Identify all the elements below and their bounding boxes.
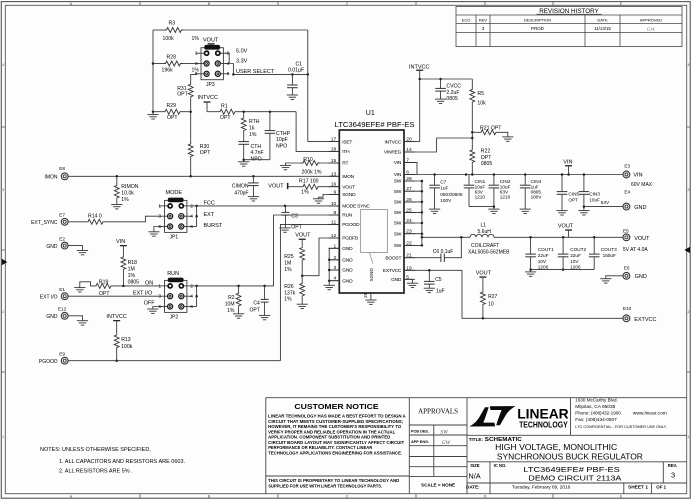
svg-text:200k 1%: 200k 1%: [302, 169, 322, 175]
resistor R26: [301, 276, 303, 282]
pin 19 EXTVCC: [404, 269, 415, 271]
node VOUT select rail: [152, 30, 154, 112]
svg-text:R5: R5: [477, 91, 484, 97]
svg-text:CIN3: CIN3: [589, 192, 600, 197]
wire MODE select chain: [196, 206, 198, 227]
capacitor C7: [434, 175, 436, 186]
svg-text:10V: 10V: [538, 259, 547, 264]
svg-text:0805: 0805: [481, 161, 493, 167]
svg-text:C7: C7: [440, 179, 446, 184]
svg-text:EXT: EXT: [204, 212, 215, 218]
wire EXT_SYNC to JP1: [105, 216, 159, 222]
svg-text:4: 4: [333, 276, 336, 282]
capacitor CIN1: [468, 175, 470, 186]
svg-text:R27: R27: [488, 294, 497, 300]
svg-text:1%: 1%: [121, 197, 129, 203]
svg-text:DESCRIPTION: DESCRIPTION: [524, 17, 551, 22]
svg-text:10.0k: 10.0k: [121, 191, 134, 197]
wire INTVCC net: [420, 79, 473, 142]
pin 24 SW: [404, 222, 415, 224]
ground JP1 pin5: [154, 227, 159, 232]
svg-text:1%: 1%: [249, 132, 257, 138]
svg-text:1%: 1%: [284, 267, 292, 273]
svg-text:1M: 1M: [284, 261, 291, 267]
terminal E9: [61, 357, 68, 364]
terminal E2: [61, 242, 68, 249]
svg-text:TECHNOLOGY: TECHNOLOGY: [519, 419, 568, 429]
svg-text:TITLE:: TITLE:: [469, 437, 484, 442]
svg-text:1uF: 1uF: [436, 289, 445, 295]
pin 17 ISET: [329, 141, 340, 143]
pin 28 SW: [404, 180, 415, 182]
svg-text:13: 13: [331, 171, 337, 177]
svg-text:OPT: OPT: [177, 92, 188, 98]
pin 22 SW: [404, 244, 415, 246]
svg-text:1630 McCarthy Blvd.: 1630 McCarthy Blvd.: [575, 398, 618, 403]
ground SGND pin9: [319, 195, 340, 199]
svg-text:OPT: OPT: [167, 115, 178, 121]
svg-text:10: 10: [488, 301, 494, 307]
svg-text:INTVCC: INTVCC: [106, 314, 127, 320]
capacitor C6 boost: [404, 257, 441, 259]
svg-text:VOUT: VOUT: [342, 184, 355, 190]
pin 8 RUN: [329, 214, 340, 216]
resistor R29: [153, 111, 163, 113]
svg-text:3: 3: [195, 61, 198, 67]
svg-text:1: 1: [158, 283, 161, 289]
svg-text:R14 0: R14 0: [88, 213, 102, 219]
svg-text:1k: 1k: [249, 126, 255, 132]
resistor R5: [471, 79, 473, 88]
capacitor C4: [264, 286, 266, 300]
resistor R22: [471, 132, 473, 148]
svg-text:SW: SW: [394, 189, 402, 195]
svg-text:VIN: VIN: [116, 239, 125, 245]
svg-text:2: 2: [2, 310, 4, 314]
capacitor CIMON: [252, 176, 254, 183]
pin 7 VIN: [404, 161, 415, 163]
svg-text:JP3: JP3: [206, 82, 215, 88]
svg-text:R2: R2: [228, 295, 235, 301]
jumper JP3: [196, 52, 206, 54]
resistor R2: [238, 286, 240, 292]
svg-text:R18: R18: [128, 260, 138, 266]
svg-text:SUPPLIED FOR USE WITH LINEAR T: SUPPLIED FOR USE WITH LINEAR TECHNOLOGY …: [268, 484, 382, 489]
svg-text:INTVCC: INTVCC: [198, 95, 219, 101]
svg-text:5.6uH: 5.6uH: [478, 229, 492, 235]
svg-text:ITH: ITH: [342, 149, 350, 155]
svg-text:470pF: 470pF: [234, 191, 248, 197]
svg-text:1: 1: [333, 243, 336, 249]
resistor R1: [207, 111, 218, 113]
svg-text:E5: E5: [623, 229, 629, 234]
capacitor CTHP: [269, 112, 271, 131]
wire PGOOD net: [280, 224, 339, 360]
svg-text:R30: R30: [200, 144, 210, 150]
logo Linear Technology: [490, 406, 516, 425]
svg-text:APPROVALS: APPROVALS: [418, 408, 458, 416]
svg-text:VOUT: VOUT: [634, 236, 650, 242]
pin 4 GND: [329, 280, 340, 282]
revision history table: [456, 7, 682, 47]
wire VOUT rail: [494, 236, 623, 238]
resistor R14: [68, 221, 86, 223]
svg-text:THIS CIRCUIT IS PROPRIETARY TO: THIS CIRCUIT IS PROPRIETARY TO LINEAR TE…: [268, 478, 399, 483]
svg-text:15: 15: [331, 158, 337, 164]
svg-text:CUSTOMER NOTICE: CUSTOMER NOTICE: [294, 402, 378, 411]
svg-text:NPO: NPO: [276, 144, 287, 150]
svg-text:10: 10: [331, 201, 337, 207]
svg-text:1%: 1%: [128, 273, 136, 279]
wire SW node: [421, 181, 423, 245]
svg-text:10k: 10k: [477, 101, 486, 107]
svg-text:CIRCUIT THAT MEETS CUSTOMER-SU: CIRCUIT THAT MEETS CUSTOMER-SUPPLIED SPE…: [268, 419, 403, 424]
svg-text:CTH: CTH: [251, 144, 262, 150]
wire RUN net: [193, 215, 340, 286]
svg-text:5V AT 4.0A: 5V AT 4.0A: [623, 247, 648, 253]
wire GND pins chain: [329, 248, 339, 285]
resistor R19: [74, 287, 85, 289]
svg-text:R19: R19: [99, 279, 109, 285]
pin 20 INTVCC: [404, 141, 415, 143]
svg-text:VOUT: VOUT: [558, 223, 574, 229]
svg-text:SGND: SGND: [369, 268, 374, 282]
svg-text:2. ALL RESISTORS ARE 5% .: 2. ALL RESISTORS ARE 5% .: [59, 469, 133, 475]
svg-text:GND: GND: [46, 314, 58, 320]
svg-text:D: D: [484, 494, 487, 498]
terminal E7: [61, 218, 68, 225]
capacitor COUT3: [593, 237, 595, 254]
svg-text:16: 16: [331, 182, 337, 188]
wire VIN rail: [404, 162, 417, 174]
svg-text:OPT: OPT: [291, 224, 302, 230]
svg-text:11/13/15: 11/13/15: [594, 26, 611, 31]
svg-text:R21 OPT: R21 OPT: [480, 125, 502, 131]
svg-text:R26: R26: [284, 284, 294, 290]
svg-text:GW: GW: [442, 440, 452, 446]
svg-text:BURST: BURST: [204, 223, 223, 229]
wire VINREG: [404, 138, 472, 152]
svg-text:GND: GND: [342, 258, 353, 264]
svg-text:APPLICATION. COMPONENT SUBSTI: APPLICATION. COMPONENT SUBSTITUTION AND …: [268, 435, 390, 440]
wire JP2 select chain: [196, 286, 198, 307]
capacitor COUT2: [562, 237, 564, 254]
svg-text:JP1: JP1: [170, 235, 179, 241]
pin 6 VIN: [404, 174, 415, 176]
ground E12: [68, 316, 82, 321]
svg-text:EXT I/O: EXT I/O: [133, 290, 153, 296]
svg-text:100V: 100V: [531, 195, 543, 200]
svg-text:VOUT: VOUT: [476, 270, 492, 276]
svg-text:E9: E9: [59, 352, 65, 357]
svg-text:1%: 1%: [284, 297, 292, 303]
svg-text:22uF: 22uF: [570, 253, 581, 258]
svg-text:PROD: PROD: [531, 26, 544, 31]
svg-text:ON: ON: [145, 281, 153, 287]
capacitor COUT1: [530, 237, 532, 254]
svg-text:11: 11: [331, 219, 336, 225]
pin 15 RT: [329, 162, 340, 164]
svg-text:8: 8: [333, 210, 336, 216]
svg-text:VOUT: VOUT: [268, 184, 284, 190]
svg-text:EXTVCC: EXTVCC: [634, 317, 656, 323]
svg-text:GND: GND: [634, 205, 646, 211]
ground JP2 pin5: [153, 307, 159, 310]
svg-text:10pF: 10pF: [276, 137, 288, 143]
svg-text:LINEAR TECHNOLOGY HAS MADE A B: LINEAR TECHNOLOGY HAS MADE A BEST EFFORT…: [268, 414, 406, 419]
svg-text:GND: GND: [342, 278, 353, 284]
svg-text:1: 1: [158, 203, 161, 209]
svg-text:U1: U1: [366, 110, 375, 117]
svg-text:RT: RT: [342, 161, 348, 167]
svg-text:COUT2: COUT2: [570, 247, 586, 252]
svg-text:1M: 1M: [128, 267, 135, 273]
pin 3 GND: [329, 269, 340, 271]
svg-text:VOUT: VOUT: [203, 38, 219, 44]
svg-text:GND: GND: [635, 274, 647, 280]
svg-text:C5: C5: [435, 277, 442, 283]
svg-text:IC NO.: IC NO.: [494, 463, 507, 468]
zone marker arrows: [2, 259, 8, 265]
svg-text:17: 17: [331, 137, 337, 143]
wire ITH path: [296, 112, 339, 152]
svg-text:OPT: OPT: [220, 115, 231, 121]
terminal E10: [623, 315, 630, 322]
wire IMON net: [68, 175, 339, 177]
pin 14 VINREG: [404, 151, 415, 153]
terminal E8: [61, 173, 68, 180]
pin 13 IMON: [329, 175, 340, 177]
inductor L1: [422, 236, 470, 238]
svg-text:CIN5: CIN5: [568, 192, 579, 197]
svg-text:HOWEVER, IT REMAINS THE CUSTOM: HOWEVER, IT REMAINS THE CUSTOMER’S RESPO…: [268, 424, 402, 429]
svg-text:C4: C4: [253, 300, 260, 306]
svg-text:C: C: [346, 494, 349, 498]
svg-text:SW: SW: [394, 210, 402, 216]
svg-text:JP2: JP2: [170, 315, 179, 321]
ground compensation: [244, 159, 270, 161]
svg-text:REV.: REV.: [668, 463, 677, 468]
svg-text:VOUT: VOUT: [295, 232, 311, 238]
svg-text:10V: 10V: [570, 259, 579, 264]
terminal E3: [623, 171, 630, 178]
terminal E4: [584, 206, 623, 208]
svg-text:1: 1: [195, 51, 198, 57]
resistor R31: [191, 74, 196, 82]
svg-text:OPT: OPT: [200, 150, 211, 156]
svg-text:CIMON: CIMON: [232, 183, 249, 189]
svg-text:1206: 1206: [570, 265, 581, 270]
svg-text:1210: 1210: [475, 195, 486, 200]
pin 25 SW: [404, 211, 415, 213]
pin 18 ITH: [329, 150, 340, 152]
svg-text:RTH: RTH: [249, 119, 260, 125]
wire JP3 select chain: [225, 53, 229, 63]
svg-text:GND: GND: [46, 244, 58, 250]
svg-text:0805: 0805: [128, 279, 140, 285]
svg-text:CVCC: CVCC: [446, 84, 461, 90]
svg-text:100k: 100k: [163, 36, 175, 42]
resistor R30: [190, 112, 192, 143]
svg-text:GND: GND: [342, 246, 353, 252]
pin 16 VOUT: [329, 186, 340, 188]
svg-text:4: 4: [2, 63, 4, 67]
svg-text:E8: E8: [59, 166, 65, 171]
pin 10 MODE SYNC: [329, 205, 340, 207]
wire PGDFB: [302, 238, 339, 276]
svg-text:SCALE = NONE: SCALE = NONE: [421, 483, 455, 488]
svg-text:BOOST: BOOST: [385, 255, 401, 261]
title block frame: [266, 398, 687, 494]
svg-text:3: 3: [333, 265, 336, 271]
terminal E12: [61, 312, 68, 319]
wire ISET riser: [307, 30, 309, 142]
svg-text:22uF: 22uF: [538, 253, 549, 258]
svg-text:OPT: OPT: [250, 307, 260, 313]
svg-text:D: D: [484, 2, 487, 6]
svg-text:R10: R10: [303, 157, 313, 163]
svg-text:12: 12: [331, 233, 337, 239]
svg-text:VERIFY PROPER AND RELIABLE OPE: VERIFY PROPER AND RELIABLE OPERATION IN …: [268, 429, 395, 434]
svg-text:E7: E7: [59, 212, 65, 217]
svg-text:VIN: VIN: [563, 159, 572, 165]
svg-text:VIN: VIN: [394, 160, 402, 166]
svg-text:R22: R22: [481, 149, 491, 155]
svg-text:R1: R1: [221, 104, 228, 110]
svg-text:E2: E2: [59, 236, 65, 241]
svg-text:E12: E12: [58, 307, 67, 312]
svg-text:VIN: VIN: [394, 172, 402, 178]
ground rail: [152, 112, 154, 115]
svg-text:Phone: (408)432-1900: Phone: (408)432-1900: [575, 411, 621, 416]
svg-text:www.linear.com: www.linear.com: [633, 411, 667, 416]
svg-text:10uF: 10uF: [589, 197, 600, 202]
svg-text:137k: 137k: [284, 290, 296, 296]
svg-text:3: 3: [688, 188, 690, 192]
svg-text:PERFORMANCE OR RELIABILITY. C: PERFORMANCE OR RELIABILITY. CONTACT LINE…: [268, 445, 372, 450]
svg-text:PGOOD: PGOOD: [39, 359, 58, 365]
resistor R17: [288, 186, 301, 188]
svg-text:4.7nF: 4.7nF: [251, 150, 264, 156]
svg-text:LTC CONFIDENTIAL - FOR CUSTOME: LTC CONFIDENTIAL - FOR CUSTOMER USE ONLY: [575, 425, 667, 429]
svg-text:DEMO CIRCUIT 2113A: DEMO CIRCUIT 2113A: [528, 474, 622, 483]
svg-text:1%: 1%: [192, 36, 200, 42]
svg-text:SW: SW: [394, 200, 402, 206]
svg-text:COUT3: COUT3: [601, 247, 617, 252]
svg-text:XAL5050-562MEB: XAL5050-562MEB: [468, 250, 510, 256]
svg-text:SYNCHRONOUS BUCK REGULATOR: SYNCHRONOUS BUCK REGULATOR: [497, 453, 643, 462]
svg-text:63V: 63V: [601, 200, 610, 205]
svg-text:G.W.: G.W.: [647, 26, 655, 31]
svg-text:196k: 196k: [162, 67, 174, 73]
svg-text:R25: R25: [284, 254, 294, 260]
svg-text:E6: E6: [624, 266, 630, 271]
svg-text:ISET: ISET: [342, 139, 352, 145]
svg-text:RUN: RUN: [167, 271, 179, 277]
capacitor CIN4: [524, 175, 526, 186]
pin 26 SW: [404, 201, 415, 203]
svg-text:SGND: SGND: [342, 192, 356, 198]
wire MODE SYNC net: [193, 205, 340, 207]
pin 12 PGDFB: [329, 237, 340, 239]
svg-text:MODE SYNC: MODE SYNC: [342, 204, 370, 210]
svg-text:SW: SW: [394, 243, 402, 249]
svg-text:1%: 1%: [301, 189, 309, 195]
svg-text:MODE: MODE: [166, 190, 183, 196]
svg-text:N/A: N/A: [468, 471, 480, 480]
svg-text:1: 1: [688, 435, 690, 439]
svg-text:1%: 1%: [227, 308, 235, 314]
svg-text:APPROVED: APPROVED: [640, 17, 662, 22]
svg-text:Milpitas, CA 95035: Milpitas, CA 95035: [575, 404, 616, 409]
svg-text:Tuesday, February 09, 2016: Tuesday, February 09, 2016: [512, 485, 571, 490]
wire E1 to JP2 pin3: [68, 295, 159, 297]
svg-text:29: 29: [363, 292, 369, 298]
svg-text:SHEET 1: SHEET 1: [628, 484, 649, 489]
svg-text:EXT I/O: EXT I/O: [40, 294, 58, 300]
pin 21 BOOST: [404, 257, 415, 259]
svg-text:SIZE: SIZE: [470, 463, 480, 468]
exposed pad SGND: [361, 210, 388, 253]
svg-text:100k: 100k: [121, 344, 133, 350]
svg-text:R3: R3: [169, 21, 176, 27]
svg-text:4: 4: [190, 294, 193, 300]
svg-text:0.01µF: 0.01µF: [288, 67, 304, 73]
svg-text:150uF: 150uF: [603, 253, 616, 258]
svg-text:3: 3: [2, 188, 4, 192]
svg-text:INTVCC: INTVCC: [384, 139, 401, 145]
svg-text:1206: 1206: [538, 265, 549, 270]
svg-text:60V MAX: 60V MAX: [631, 182, 653, 188]
svg-text:LTC3649EFE# PBF-ES: LTC3649EFE# PBF-ES: [523, 465, 619, 474]
pin 27 SW: [404, 190, 415, 192]
svg-text:6: 6: [227, 71, 230, 77]
pin 9 SGND: [329, 194, 340, 196]
svg-text:RIMON: RIMON: [121, 184, 138, 190]
svg-text:0805: 0805: [446, 96, 458, 102]
svg-text:E10: E10: [623, 306, 632, 311]
svg-text:R29: R29: [167, 103, 177, 109]
svg-text:C: C: [346, 2, 349, 6]
capacitor CIN3: [583, 175, 585, 192]
svg-text:5.0V: 5.0V: [236, 48, 248, 54]
svg-text:3: 3: [671, 471, 675, 480]
resistor R18: [121, 255, 126, 270]
svg-text:CIRCUIT BOARD LAYOUT MAY SIGNI: CIRCUIT BOARD LAYOUT MAY SIGNIFICANTLY A…: [268, 440, 404, 445]
resistor R3: [153, 29, 165, 31]
svg-text:ECO: ECO: [462, 17, 471, 22]
svg-text:DATE:: DATE:: [466, 484, 480, 489]
capacitor CIN2: [493, 175, 495, 186]
terminal E5: [623, 234, 630, 241]
terminal E6: [606, 276, 623, 279]
wire EXTVCC net: [462, 270, 623, 318]
terminal E1: [61, 293, 68, 300]
svg-text:VIN: VIN: [633, 173, 642, 179]
pin 23 SW: [404, 233, 415, 235]
svg-text:SW: SW: [394, 179, 402, 185]
svg-text:OFF: OFF: [144, 300, 156, 306]
svg-text:CTHP: CTHP: [276, 131, 291, 137]
svg-text:18: 18: [331, 146, 337, 152]
svg-text:GND: GND: [342, 268, 353, 274]
svg-text:9: 9: [333, 190, 336, 196]
svg-text:SW: SW: [394, 221, 402, 227]
svg-text:3.3V: 3.3V: [236, 59, 248, 65]
svg-text:PGDFB: PGDFB: [342, 236, 358, 242]
capacitor CTH: [243, 132, 245, 142]
capacitor CIN5: [561, 175, 563, 192]
